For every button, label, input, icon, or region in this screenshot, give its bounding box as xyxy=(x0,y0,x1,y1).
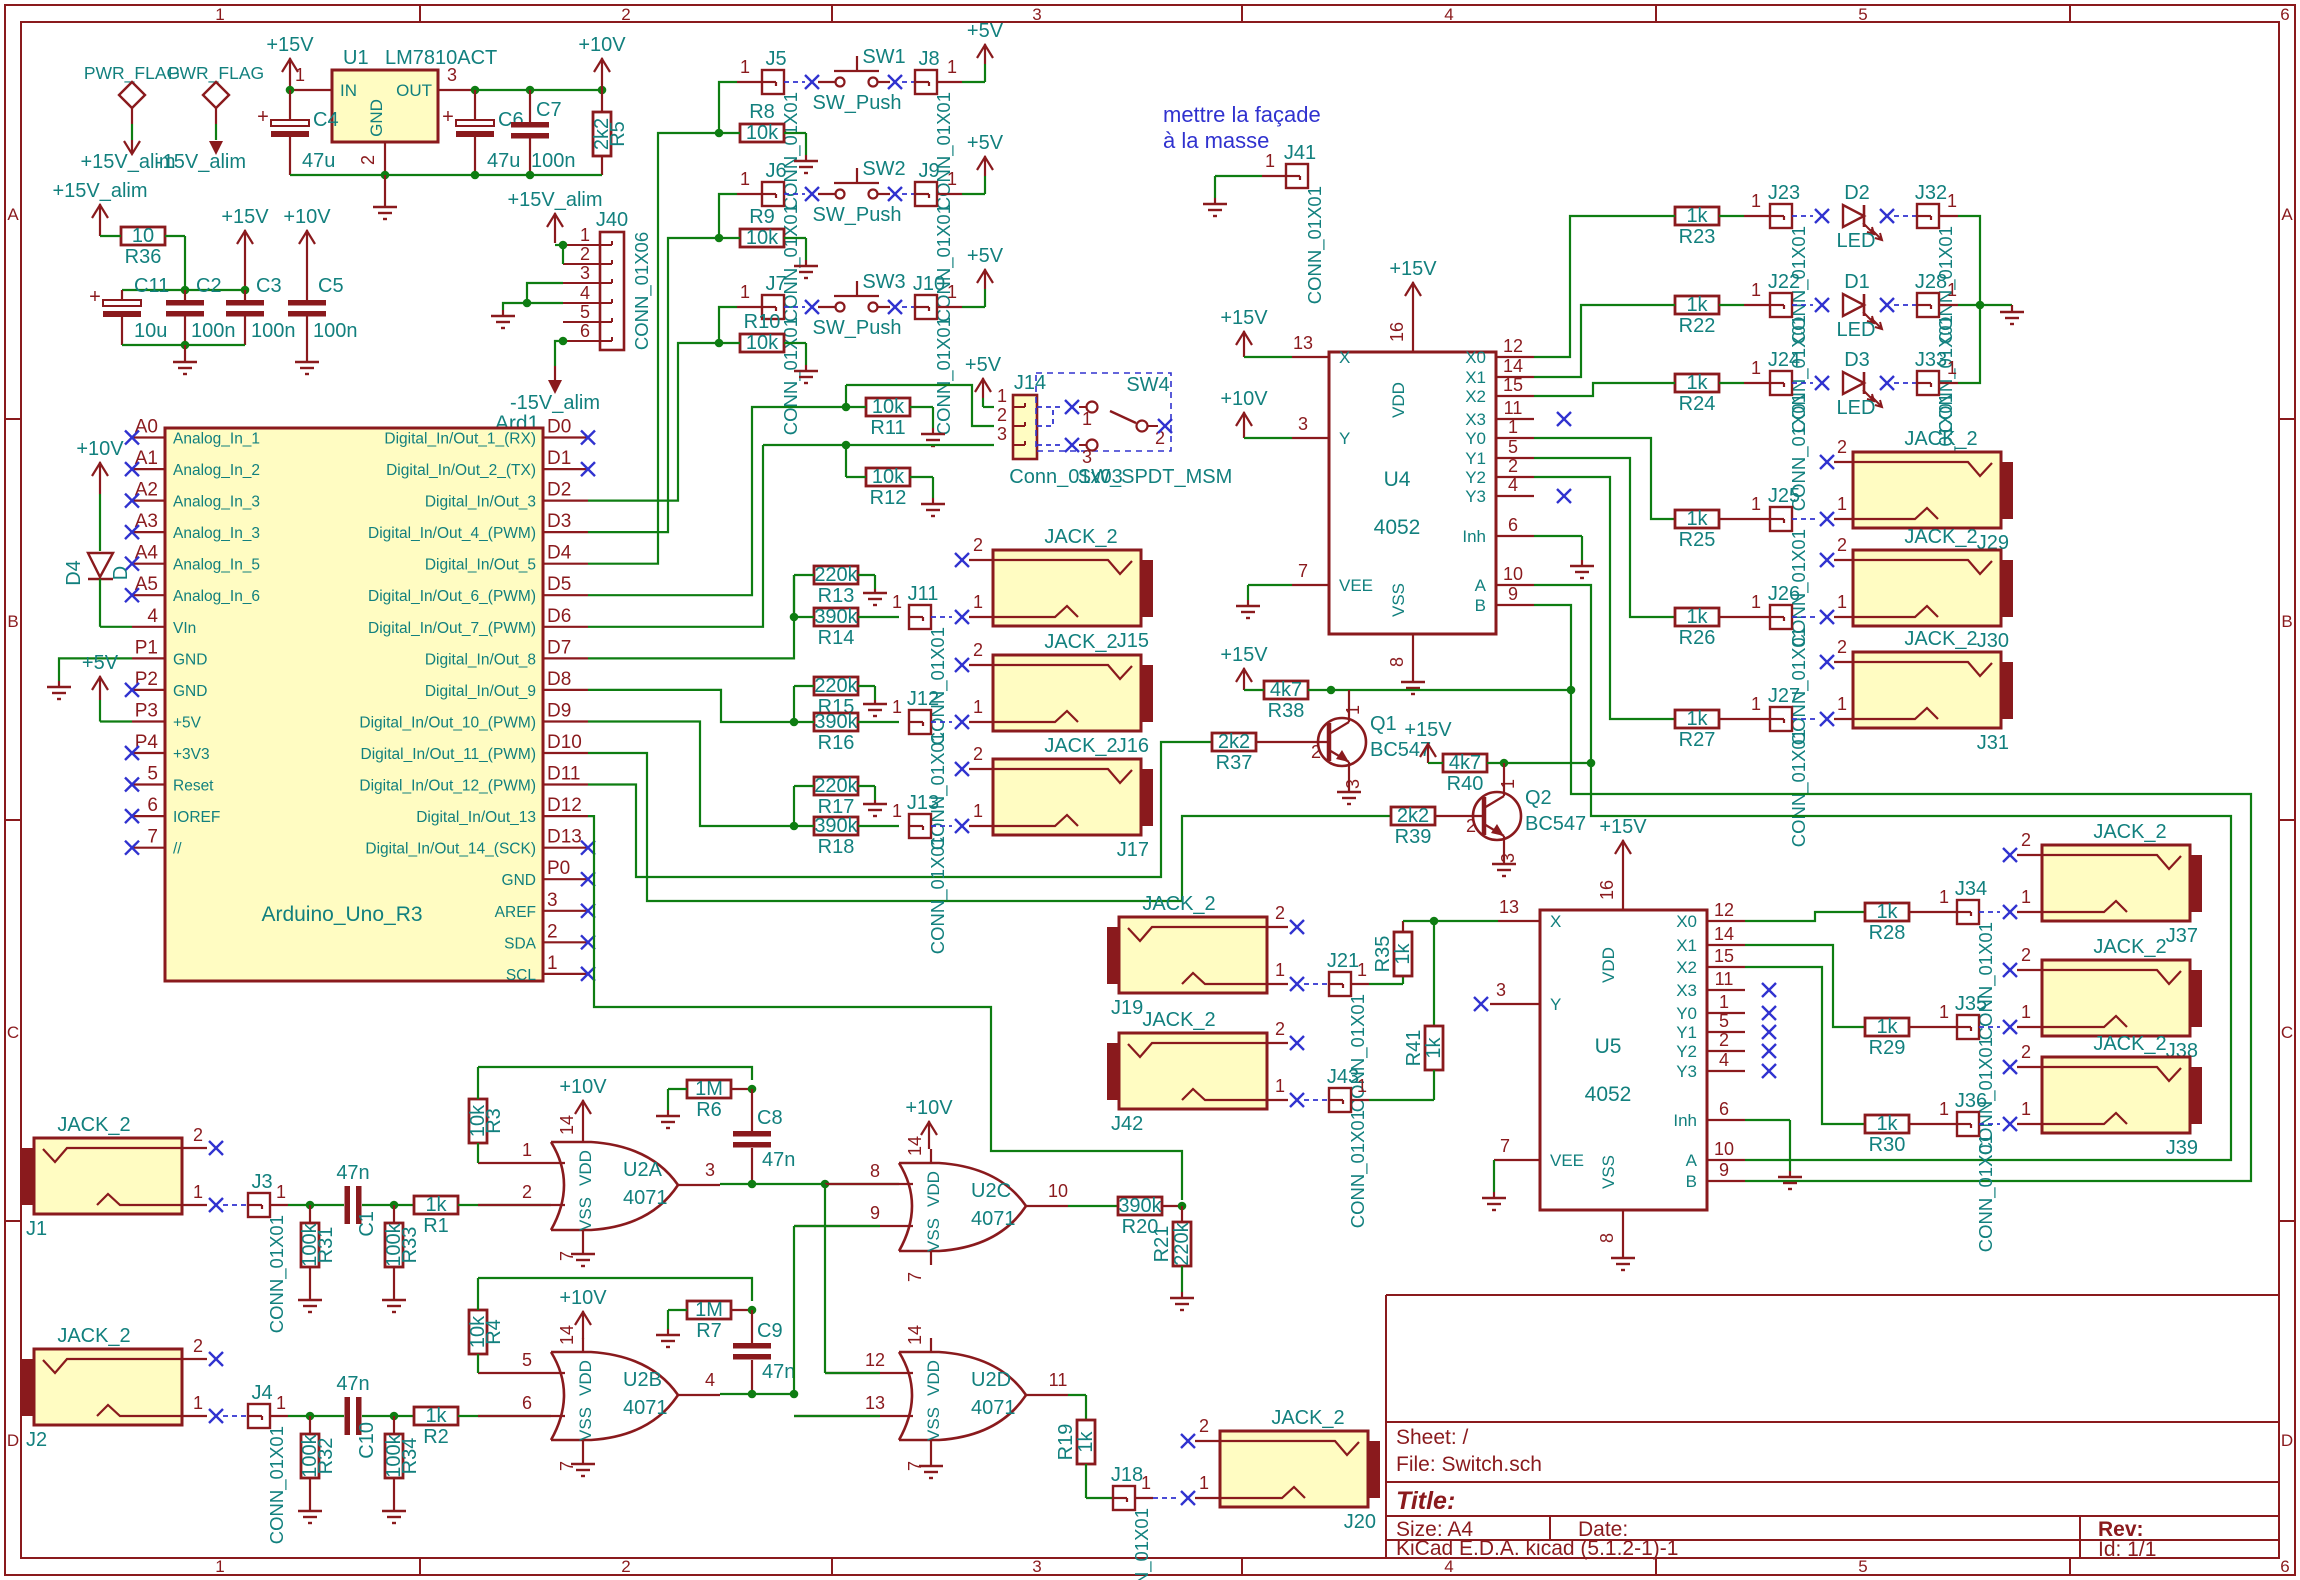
resistor R19 xyxy=(1055,1420,1097,1464)
svg-text:6: 6 xyxy=(2280,5,2289,24)
J41 pin 1 xyxy=(1262,151,1286,176)
svg-text:A1: A1 xyxy=(135,448,158,469)
wire J40 pin3-4 gnd xyxy=(503,283,563,310)
J11 pin 1 label xyxy=(892,592,902,612)
no-connect X at SW3 left xyxy=(805,300,819,314)
svg-text:VDD: VDD xyxy=(1389,382,1408,418)
svg-text:1: 1 xyxy=(276,1393,286,1413)
jack J30 pin1 stub xyxy=(1834,592,1853,617)
svg-text:D1: D1 xyxy=(1844,271,1870,293)
svg-text:P2: P2 xyxy=(135,669,158,690)
junction Q1 collector xyxy=(1327,686,1336,695)
diode D4 LED xyxy=(63,553,132,586)
svg-text:R1: R1 xyxy=(423,1215,449,1237)
U5 pin 11 X3 xyxy=(1707,969,1745,990)
svg-text:Digital_In/Out_11_(PWM): Digital_In/Out_11_(PWM) xyxy=(361,746,536,763)
Ard1 left pin A2 xyxy=(125,480,260,511)
svg-text:+5V: +5V xyxy=(967,132,1004,154)
svg-text:J27: J27 xyxy=(1768,685,1800,707)
title block Rev xyxy=(2098,1518,2144,1541)
svg-text:D2: D2 xyxy=(1844,182,1870,204)
J40 pin 4 xyxy=(563,283,600,303)
svg-text:1: 1 xyxy=(1357,960,1367,980)
PWR_FLAG 1 label xyxy=(84,63,180,84)
U4 pin 14 X1 xyxy=(1496,356,1534,377)
svg-text:1: 1 xyxy=(1751,191,1761,211)
svg-text:D2: D2 xyxy=(547,480,571,501)
svg-text:10: 10 xyxy=(1714,1139,1734,1159)
svg-text:8: 8 xyxy=(870,1161,880,1181)
svg-text:+5V: +5V xyxy=(173,715,202,732)
svg-text:2: 2 xyxy=(1719,1030,1729,1050)
svg-text:D3: D3 xyxy=(1844,349,1870,371)
svg-text:D1: D1 xyxy=(547,448,571,469)
junction R6/C8 xyxy=(748,1085,757,1094)
ground at R11 xyxy=(921,428,945,446)
junction R18 left xyxy=(790,822,799,831)
svg-text:1: 1 xyxy=(1498,779,1518,789)
svg-text:Analog_In_2: Analog_In_2 xyxy=(173,462,260,479)
jack J15 pin2 stub xyxy=(969,535,993,560)
connector J6 xyxy=(762,160,802,322)
svg-text:+15V: +15V xyxy=(1599,816,1647,838)
title block Size xyxy=(1396,1518,1473,1541)
svg-text:2: 2 xyxy=(1837,637,1847,657)
resistor R13 xyxy=(814,564,859,607)
resistor R24 xyxy=(1675,372,1719,415)
svg-text:J15: J15 xyxy=(1117,630,1149,652)
J9 pin 1 xyxy=(937,169,962,194)
wire R38 to B rail xyxy=(1308,689,1571,691)
svg-text:A5: A5 xyxy=(135,574,158,595)
R32 leads xyxy=(309,1416,311,1511)
svg-text:4071: 4071 xyxy=(623,1187,668,1209)
svg-text:1k: 1k xyxy=(1686,372,1708,394)
junction C7 bottom xyxy=(526,171,535,180)
svg-text:7: 7 xyxy=(905,1272,925,1282)
junction R31 xyxy=(306,1201,315,1210)
U5 pin 2 Y2 xyxy=(1707,1030,1745,1051)
svg-text:A: A xyxy=(1475,576,1487,595)
dashed J13 to jack xyxy=(931,825,952,827)
Ard1 left pin A4 xyxy=(125,543,260,574)
svg-text:390k: 390k xyxy=(814,711,858,733)
switch SW4 dashed box xyxy=(1036,373,1171,451)
svg-text:+15V: +15V xyxy=(1220,644,1268,666)
svg-text:6: 6 xyxy=(2280,1557,2289,1576)
svg-text:J5: J5 xyxy=(765,48,786,70)
U5 pin 12 X0 xyxy=(1707,900,1745,921)
wire D5 to R11 node xyxy=(588,407,846,595)
svg-text:R16: R16 xyxy=(818,732,855,754)
svg-text:Digital_In/Out_3: Digital_In/Out_3 xyxy=(425,494,536,511)
svg-text:4: 4 xyxy=(1719,1050,1729,1070)
svg-text:J43: J43 xyxy=(1327,1066,1359,1088)
svg-text:5: 5 xyxy=(147,764,158,785)
dashed J18-J20 xyxy=(1153,1497,1178,1499)
junction B rail xyxy=(1567,686,1576,695)
resistor R39 xyxy=(1391,805,1435,848)
resistor R36 xyxy=(121,225,165,268)
C8 leads xyxy=(751,1089,753,1184)
svg-text:2: 2 xyxy=(580,244,590,264)
svg-text:1k: 1k xyxy=(1392,942,1414,964)
svg-text:J6: J6 xyxy=(765,160,786,182)
svg-text:Analog_In_3: Analog_In_3 xyxy=(173,494,260,511)
svg-text:1: 1 xyxy=(1343,705,1363,715)
U4 pin 12 X0 xyxy=(1496,336,1534,357)
wire U5 Inh gnd xyxy=(1745,1120,1790,1171)
svg-text:VSS: VSS xyxy=(1389,583,1408,617)
power -15V_alim under J40 xyxy=(510,366,600,414)
Ard1 right pin D4 xyxy=(425,543,588,574)
title block Sheet xyxy=(1396,1426,1469,1449)
svg-text:R23: R23 xyxy=(1679,226,1716,248)
svg-text:3: 3 xyxy=(580,263,590,283)
wire R23-J23 xyxy=(1719,191,1770,216)
svg-text:J3: J3 xyxy=(251,1171,272,1193)
R34 leads xyxy=(393,1416,395,1511)
Ard1 left pin 5 xyxy=(125,764,214,795)
svg-text:1: 1 xyxy=(1939,1099,1949,1119)
svg-text:R7: R7 xyxy=(696,1320,722,1342)
Ard1 right pin D3 xyxy=(368,511,588,542)
resistor R33 xyxy=(383,1222,421,1267)
no-connect X at SW3 right xyxy=(888,300,902,314)
junction C9 bottom xyxy=(748,1390,757,1399)
junction C2 top xyxy=(181,286,190,295)
R19 bottom wire xyxy=(1086,1464,1113,1498)
no-connect X U4 X3 xyxy=(1557,412,1571,426)
svg-text:1: 1 xyxy=(997,386,1007,406)
gate U2C 4071 xyxy=(794,1136,1068,1282)
svg-text:R27: R27 xyxy=(1679,729,1716,751)
svg-text:4: 4 xyxy=(147,606,158,627)
wire D12 long route xyxy=(588,816,1182,1200)
svg-text:R36: R36 xyxy=(125,246,162,268)
dashed link SW2-J9 xyxy=(902,193,915,195)
dashed J25-jack xyxy=(1792,518,1817,520)
svg-text:14: 14 xyxy=(1714,924,1734,944)
svg-text:C7: C7 xyxy=(536,99,562,121)
svg-text:1: 1 xyxy=(1751,592,1761,612)
svg-text:100n: 100n xyxy=(251,320,296,342)
svg-text:U2A: U2A xyxy=(623,1159,663,1181)
Ard1 left pin A5 xyxy=(125,574,260,605)
svg-text:10k: 10k xyxy=(746,122,779,144)
PWR_FLAG 1 xyxy=(119,82,145,124)
jack J31 JACK_2 xyxy=(1853,628,2013,754)
svg-text:BC547: BC547 xyxy=(1525,813,1586,835)
no-connect X at jack J17 pin2 xyxy=(955,762,969,776)
wire J41 gnd xyxy=(1215,176,1262,198)
svg-text:+15V: +15V xyxy=(266,34,314,56)
svg-text:5: 5 xyxy=(1719,1011,1729,1031)
capacitor C8 xyxy=(733,1107,795,1171)
jack J42 JACK_2 xyxy=(1107,1009,1267,1135)
svg-text:+10V: +10V xyxy=(559,1287,607,1309)
svg-text:+15V: +15V xyxy=(1404,719,1452,741)
svg-text:X0: X0 xyxy=(1676,912,1697,931)
switch SW3 SW_Push xyxy=(813,271,906,339)
svg-text:Digital_In/Out_2_(TX): Digital_In/Out_2_(TX) xyxy=(386,462,536,479)
svg-text:JACK_2: JACK_2 xyxy=(2093,1033,2166,1055)
svg-text:JACK_2: JACK_2 xyxy=(57,1325,130,1347)
svg-text:SW_Push: SW_Push xyxy=(813,204,902,226)
ground R32 xyxy=(298,1511,322,1523)
svg-text:A: A xyxy=(1686,1151,1698,1170)
Ard1 right pin 1 xyxy=(506,953,595,984)
svg-text:220k: 220k xyxy=(814,775,858,797)
resistor R40 xyxy=(1443,752,1487,795)
svg-text:J23: J23 xyxy=(1768,182,1800,204)
svg-text:1k: 1k xyxy=(1423,1036,1445,1058)
svg-text:6: 6 xyxy=(1719,1099,1729,1119)
jack J29 JACK_2 xyxy=(1853,428,2013,554)
junction R9 node xyxy=(715,234,724,243)
jack J20 JACK_2 xyxy=(1220,1407,1380,1533)
svg-text:CONN_01X01: CONN_01X01 xyxy=(1304,186,1326,304)
jack J38 pin1 stub xyxy=(2017,1002,2042,1027)
svg-text:JACK_2: JACK_2 xyxy=(1142,1009,1215,1031)
svg-text:SDA: SDA xyxy=(504,935,537,952)
junction C8 bottom xyxy=(748,1180,757,1189)
svg-text:R25: R25 xyxy=(1679,529,1716,551)
svg-text:4052: 4052 xyxy=(1585,1083,1632,1106)
diode D2 LED xyxy=(1837,182,1882,252)
svg-text:1: 1 xyxy=(2021,1002,2031,1022)
resistor R6 xyxy=(687,1078,731,1121)
svg-text:100n: 100n xyxy=(313,320,358,342)
wire R20 to junction xyxy=(1162,1205,1182,1207)
svg-text:J34: J34 xyxy=(1955,878,1987,900)
svg-text:1: 1 xyxy=(193,1393,203,1413)
capacitor C11 xyxy=(89,275,169,342)
svg-text:D11: D11 xyxy=(547,764,580,785)
R5 leads xyxy=(601,90,603,175)
svg-text:VSS: VSS xyxy=(1599,1155,1618,1189)
R15 right gnd xyxy=(858,686,875,700)
svg-text:B: B xyxy=(1686,1172,1697,1191)
svg-text:Analog_In_3: Analog_In_3 xyxy=(173,525,260,542)
J32 pin 1 xyxy=(1939,191,1958,216)
wire D3 to R9 node xyxy=(588,238,719,532)
svg-text:5: 5 xyxy=(1858,5,1867,24)
power +15V above U5 xyxy=(1599,816,1647,868)
svg-text:5: 5 xyxy=(580,302,590,322)
R31 leads xyxy=(309,1205,311,1300)
J5 pin 1 xyxy=(737,57,762,82)
switch SW2 SW_Push xyxy=(813,158,906,226)
svg-text:U1: U1 xyxy=(343,47,369,69)
svg-text:4052: 4052 xyxy=(1374,516,1421,539)
wire U4 X0 to R23 xyxy=(1534,216,1675,357)
svg-text:7: 7 xyxy=(147,827,158,848)
svg-text:R33: R33 xyxy=(399,1227,421,1264)
svg-text:1: 1 xyxy=(1947,191,1957,211)
svg-text:D0: D0 xyxy=(547,417,571,438)
J20 pin2 stub xyxy=(1195,1416,1220,1441)
no-connect X J31 pin2 xyxy=(1820,655,1834,669)
connector J41 xyxy=(1284,142,1326,304)
junction J40 pin6 xyxy=(559,337,568,346)
svg-text:1: 1 xyxy=(1751,694,1761,714)
switch SW1 SW_Push xyxy=(813,46,906,114)
resistor R16 xyxy=(814,711,859,754)
svg-text:R21: R21 xyxy=(1151,1226,1173,1263)
title block Date xyxy=(1578,1518,1628,1541)
svg-text:R3: R3 xyxy=(483,1108,505,1134)
svg-text:CONN_01X01: CONN_01X01 xyxy=(1131,1508,1153,1580)
svg-text:1: 1 xyxy=(1199,1473,1209,1493)
svg-text:J42: J42 xyxy=(1111,1113,1143,1135)
junction J40 pin1 xyxy=(559,241,568,250)
dashed J1-J3 xyxy=(223,1204,248,1206)
svg-text:C4: C4 xyxy=(313,109,339,131)
svg-text:4k7: 4k7 xyxy=(1449,752,1481,774)
dashed J14 pin2 jog xyxy=(1037,408,1053,426)
Ard1 right pin D8 xyxy=(425,669,588,700)
svg-text:Y0: Y0 xyxy=(1676,1004,1697,1023)
svg-text://: // xyxy=(173,841,182,858)
svg-text:3: 3 xyxy=(1498,853,1518,863)
svg-text:Digital_In/Out_6_(PWM): Digital_In/Out_6_(PWM) xyxy=(368,588,536,605)
PWR_FLAG 2 xyxy=(203,82,229,124)
no-connect X D1 left xyxy=(1815,298,1829,312)
svg-text:R19: R19 xyxy=(1055,1424,1077,1461)
svg-text:2: 2 xyxy=(1837,535,1847,555)
svg-text:R13: R13 xyxy=(818,585,855,607)
wire R16 to J12 xyxy=(858,721,899,723)
svg-text:X1: X1 xyxy=(1676,936,1697,955)
svg-text:CONN_01X01: CONN_01X01 xyxy=(1975,1134,1997,1252)
U4 pin 7 VEE xyxy=(1292,561,1329,585)
svg-text:CONN_01X01: CONN_01X01 xyxy=(266,1426,288,1544)
wire R40 to A rail xyxy=(1487,762,1591,764)
svg-text:J25: J25 xyxy=(1768,485,1800,507)
wire J4 to cap xyxy=(288,1415,344,1417)
svg-text:J40: J40 xyxy=(596,209,628,231)
capacitor C1 xyxy=(336,1162,378,1237)
wire U4 Inh gnd xyxy=(1534,536,1582,560)
capacitor C4 xyxy=(257,106,338,172)
svg-text:2: 2 xyxy=(1508,456,1518,476)
svg-text:Digital_In/Out_13: Digital_In/Out_13 xyxy=(416,809,536,826)
wire U4 Y0 to R25 xyxy=(1534,438,1675,519)
C6 leads xyxy=(474,90,476,175)
svg-text:JACK_2: JACK_2 xyxy=(1044,631,1117,653)
junction R16 left xyxy=(790,718,799,727)
Ard1 right pin D0 xyxy=(384,417,595,448)
wire +5V to J14 pin1 xyxy=(983,398,994,407)
svg-text:390k: 390k xyxy=(1118,1195,1162,1217)
svg-text:Y3: Y3 xyxy=(1676,1062,1697,1081)
power +10V at U4 Y xyxy=(1220,388,1268,438)
svg-text:11: 11 xyxy=(1715,969,1734,989)
svg-text:47u: 47u xyxy=(302,150,335,172)
U5 pin 4 Y3 xyxy=(1707,1050,1745,1071)
PWR_FLAG 2 label xyxy=(168,63,264,84)
svg-text:10: 10 xyxy=(1503,564,1523,584)
wire R30-J36 xyxy=(1909,1099,1957,1124)
svg-text:JACK_2: JACK_2 xyxy=(2093,821,2166,843)
svg-text:1: 1 xyxy=(1837,494,1847,514)
resistor R3 xyxy=(467,1099,505,1143)
J42 pin1 stub xyxy=(1267,1076,1288,1100)
svg-text:10k: 10k xyxy=(746,227,779,249)
wire D4 to VIn xyxy=(100,579,132,627)
dashed J2-J4 xyxy=(223,1415,248,1417)
jack J38 JACK_2 xyxy=(2042,936,2202,1062)
wire R37 to Q1 base xyxy=(1256,741,1310,743)
svg-text:R6: R6 xyxy=(696,1099,722,1121)
svg-text:D: D xyxy=(2281,1431,2293,1450)
svg-text:J35: J35 xyxy=(1955,993,1987,1015)
svg-text:U5: U5 xyxy=(1595,1035,1622,1058)
dashed J14 pin1 to SW4 xyxy=(1037,406,1062,408)
U5 pin 13 X xyxy=(1498,897,1540,921)
svg-text:SCL: SCL xyxy=(506,967,537,984)
jack J17 JACK_2 xyxy=(993,735,1153,861)
svg-text:10k: 10k xyxy=(872,396,905,418)
svg-text:GND: GND xyxy=(502,872,536,889)
svg-text:IOREF: IOREF xyxy=(173,809,220,826)
power +10V U2B xyxy=(559,1287,607,1339)
J19 pin2 stub xyxy=(1267,903,1288,927)
J4 pin 1 xyxy=(270,1393,288,1416)
svg-text:+10V: +10V xyxy=(905,1097,953,1119)
J20 pin1 stub xyxy=(1195,1473,1220,1498)
svg-text:VSS: VSS xyxy=(576,1407,595,1441)
svg-text:C1: C1 xyxy=(356,1211,378,1237)
jack J15 pin1 stub xyxy=(969,592,993,617)
power +15V at R40 xyxy=(1404,719,1452,763)
wire R27-J27 xyxy=(1719,694,1770,719)
wire U2C out to R20 xyxy=(1068,1205,1118,1207)
resistor R15 xyxy=(814,675,859,718)
svg-text:VEE: VEE xyxy=(1339,576,1373,595)
power +15V_alim above J40 xyxy=(507,189,602,243)
jack J30 JACK_2 xyxy=(1853,526,2013,652)
svg-text:Sheet: /: Sheet: / xyxy=(1396,1426,1469,1449)
svg-text:R12: R12 xyxy=(870,487,907,509)
wire D11 to R37 xyxy=(588,742,1212,877)
wire D6 to J14 pin3 xyxy=(588,445,763,627)
connector J34 xyxy=(1955,878,1997,1040)
resistor R21 xyxy=(1151,1221,1193,1266)
svg-text:1: 1 xyxy=(1939,1002,1949,1022)
svg-text:1: 1 xyxy=(1947,358,1957,378)
svg-text:1: 1 xyxy=(1275,1076,1285,1096)
svg-text:AREF: AREF xyxy=(495,904,536,921)
svg-text:1k: 1k xyxy=(425,1405,447,1427)
R7 right wire xyxy=(731,1309,752,1311)
resistor R32 xyxy=(299,1433,337,1478)
wire PWR_FLAG1 down xyxy=(131,124,133,140)
svg-text:Y0: Y0 xyxy=(1465,429,1486,448)
svg-text:220k: 220k xyxy=(814,564,858,586)
Ard1 left pin P2 xyxy=(125,669,207,700)
no-connect X at SW2 right xyxy=(888,187,902,201)
svg-text:SW3: SW3 xyxy=(862,271,905,293)
title block File xyxy=(1396,1453,1542,1476)
J28 pin 1 xyxy=(1939,280,1958,305)
U4 pin 10 A xyxy=(1496,564,1534,585)
svg-text:14: 14 xyxy=(557,1325,577,1345)
ground R33 xyxy=(382,1300,406,1312)
J40 pin 3 xyxy=(563,263,600,283)
no-connect X SW4 pin1 xyxy=(1065,400,1079,414)
